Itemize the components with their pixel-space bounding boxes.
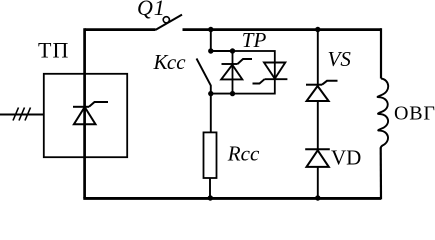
svg-text:VD: VD [331,145,361,169]
svg-text:Ксс: Ксс [153,50,187,74]
lower tie wire to TP block [211,93,233,95]
svg-text:ТР: ТР [242,28,267,52]
supply hatch marks [13,108,31,121]
junction dot top wire / VS branch [315,27,320,32]
bottom bus wire [83,197,381,200]
TP block box [233,51,275,94]
top bus wire (left segment to Q1) [85,28,156,31]
TP left thyristor (conducts up) [221,59,252,79]
svg-text:Q1: Q1 [137,0,166,20]
right vertical wire (top segment to coil) [380,28,382,78]
diode VD [305,149,330,167]
thyristor inside TP box [73,102,108,124]
Kcc branch wire from top bus [210,30,212,52]
wire top bus to VS [317,30,319,87]
svg-text:ОВГ: ОВГ [394,103,435,125]
TP right thyristor (conducts down) [253,63,288,84]
left vertical wire through TP converter [83,28,86,198]
breaker Q1 circle [163,17,169,23]
junction dot Rcc bottom [208,195,213,200]
junction dot TP box top-left [230,48,235,53]
junction dot at TP lower tie [208,91,213,96]
svg-text:VS: VS [328,47,352,71]
right vertical wire (coil to bottom-right corner) [380,148,382,200]
junction dot at TP upper tie [208,48,213,53]
junction dot TP box bottom-left [230,91,235,96]
svg-text:ТП: ТП [38,37,69,62]
svg-text:Rcc: Rcc [227,142,260,166]
upper tie wire to TP block [211,50,233,52]
converter box TP [44,74,127,157]
inductor OVG coil [378,79,389,149]
junction dot top wire / Kcc branch [208,27,213,32]
breaker Q1 blade [156,15,183,30]
wire VD to bottom bus [317,167,319,198]
top bus wire (Q1 to top-right corner) [183,28,382,31]
supply input line [0,114,44,116]
contactor Kcc blade [197,59,211,94]
wire Kcc to resistor Rcc [210,94,212,133]
wire VS to VD [317,101,319,150]
thyristor VS [306,81,338,101]
wire Rcc to bottom bus [209,178,211,198]
resistor Rcc body [204,132,217,178]
junction dot VD bottom [315,195,320,200]
